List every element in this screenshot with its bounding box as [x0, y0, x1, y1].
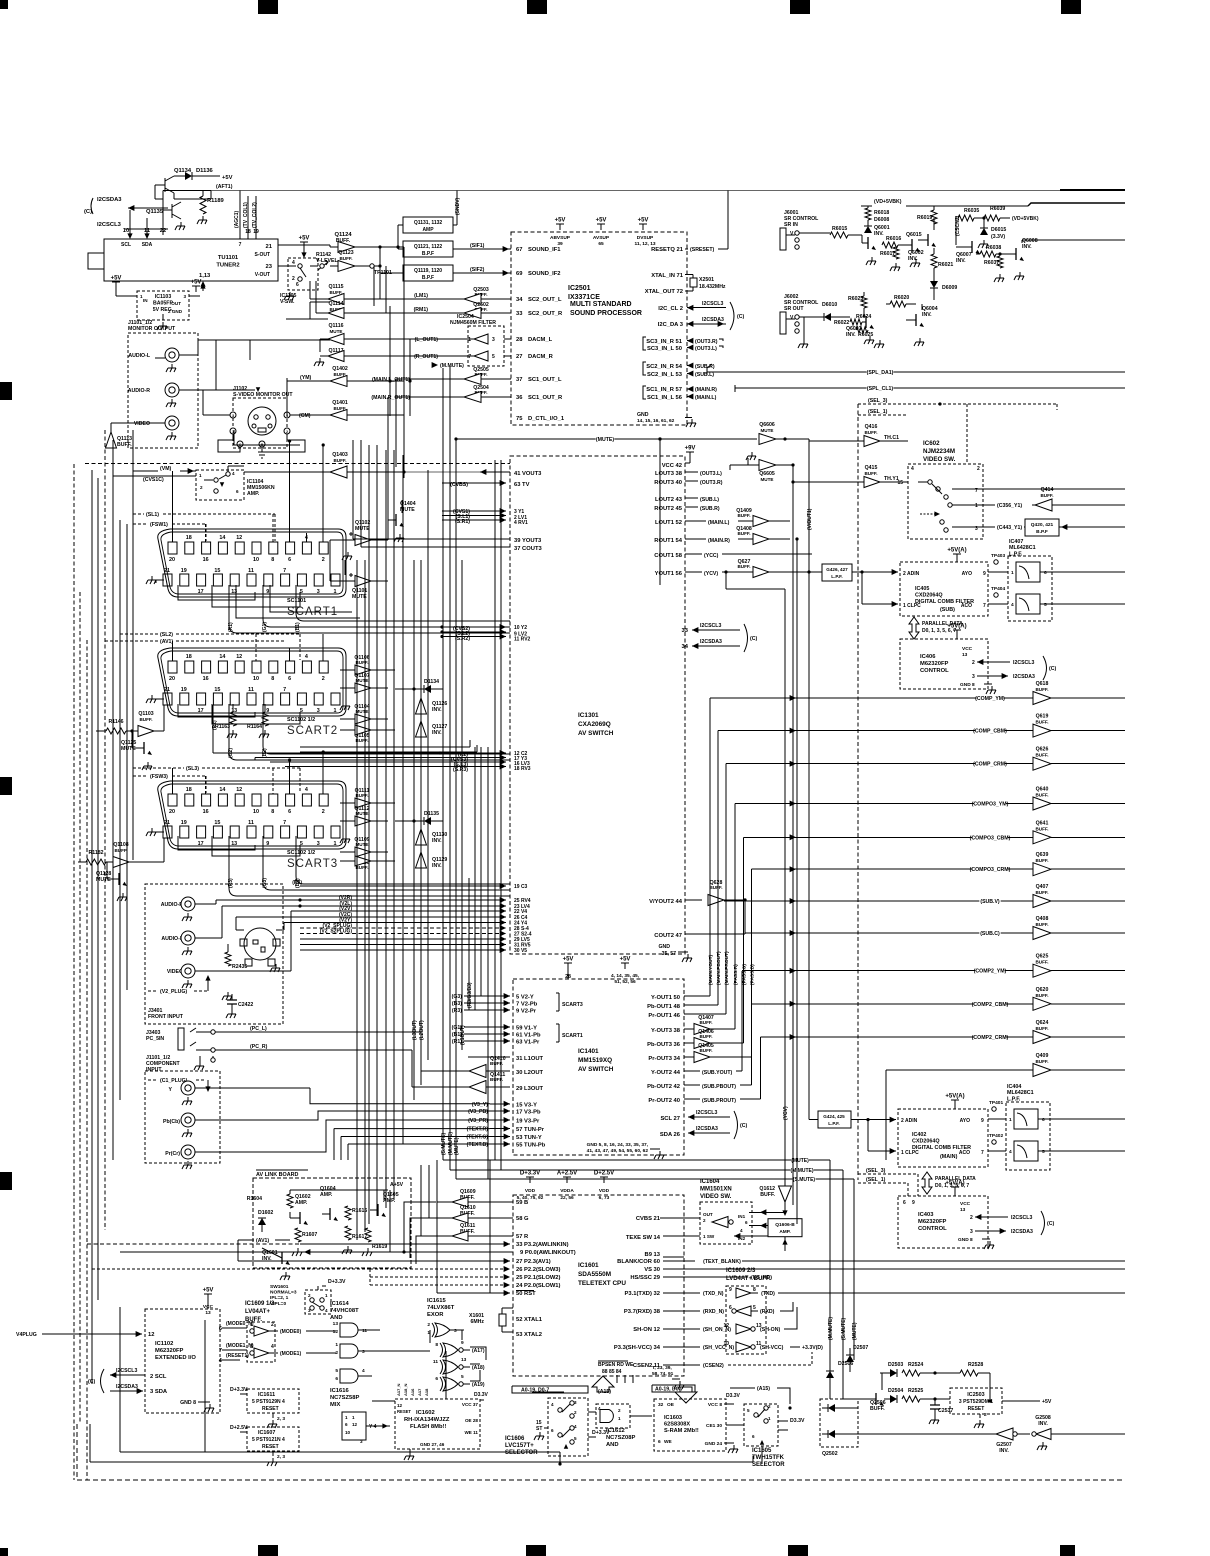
- svg-text:AV SWITCH: AV SWITCH: [578, 1066, 614, 1073]
- svg-text:2 GND: 2 GND: [168, 309, 183, 314]
- buffer Q1130 INV: [416, 829, 427, 845]
- svg-text:IC1616: IC1616: [330, 1388, 349, 1394]
- svg-text:6: 6: [658, 1439, 661, 1445]
- svg-text:DACM_R: DACM_R: [528, 354, 554, 360]
- svg-text:(YCV): (YCV): [704, 571, 718, 577]
- svg-text:SC1102 1/2: SC1102 1/2: [287, 717, 315, 723]
- svg-text:RESET: RESET: [397, 1409, 411, 1414]
- svg-text:(TEXT.G): (TEXT.G): [466, 1135, 488, 1141]
- svg-text:BUFF.: BUFF.: [114, 848, 127, 853]
- wire front audio l: [221, 906, 223, 938]
- svg-text:6: 6: [345, 1422, 348, 1427]
- svg-text:(RXD_N): (RXD_N): [703, 1309, 724, 1315]
- svg-text:(R3/G3/B3): (R3/G3/B3): [467, 982, 473, 1008]
- svg-text:SC2_IN_L 53: SC2_IN_L 53: [647, 372, 683, 378]
- svg-text:NJM4560M FILTER: NJM4560M FILTER: [450, 320, 496, 326]
- svg-text:ACO: ACO: [961, 603, 972, 609]
- svg-text:63 V1-Pr: 63 V1-Pr: [516, 1040, 540, 1046]
- svg-text:13: 13: [960, 1207, 966, 1213]
- svg-text:D+2.5V: D+2.5V: [230, 1425, 248, 1431]
- svg-text:5: 5: [1042, 1149, 1045, 1155]
- svg-text:CXA2069Q: CXA2069Q: [578, 721, 611, 728]
- svg-text:FLASH 8Mb!!: FLASH 8Mb!!: [410, 1424, 446, 1430]
- svg-text:(TEXT.R): (TEXT.R): [467, 1127, 489, 1133]
- svg-text:(SL2): (SL2): [160, 632, 173, 638]
- pin 27 P2.3: [504, 1258, 510, 1264]
- svg-text:D6015: D6015: [991, 227, 1006, 233]
- wire q1402 out down: [403, 381, 405, 467]
- svg-text:CONTROL: CONTROL: [918, 1226, 947, 1232]
- svg-text:13: 13: [962, 652, 968, 658]
- svg-text:(AV1): (AV1): [160, 639, 173, 645]
- svg-text:37 COUT3: 37 COUT3: [514, 546, 542, 552]
- svg-text:IC602: IC602: [923, 440, 940, 447]
- svg-text:21: 21: [164, 687, 170, 693]
- wire comp y: [299, 1087, 301, 1089]
- wire ycv vertical: [725, 572, 727, 589]
- svg-text:BLANK/COR 60: BLANK/COR 60: [617, 1259, 660, 1265]
- bracket SCART1 pins: [556, 1023, 559, 1025]
- svg-text:R2524: R2524: [908, 1362, 923, 1368]
- svg-text:(SUB): (SUB): [940, 607, 955, 613]
- svg-text:BUFF.: BUFF.: [864, 430, 877, 435]
- svg-text:13: 13: [461, 1357, 467, 1363]
- wire pc jacks: [215, 1031, 421, 1033]
- svg-text:TP402: TP402: [989, 1133, 1003, 1139]
- bus left dashed 2: [79, 592, 81, 1424]
- svg-text:11: 11: [362, 1328, 367, 1334]
- svg-text:6: 6: [288, 809, 291, 815]
- wire vbus19: [494, 460, 496, 903]
- svg-text:AUDIO-L: AUDIO-L: [161, 936, 183, 942]
- svg-text:(R3): (R3): [292, 880, 302, 886]
- filter tri1: [474, 334, 488, 344]
- svg-text:(R_OUT1): (R_OUT1): [414, 354, 438, 360]
- svg-text:+5V: +5V: [191, 280, 202, 286]
- svg-text:33 P3.2(AWLINKIN): 33 P3.2(AWLINKIN): [516, 1242, 569, 1248]
- svg-text:D1135: D1135: [424, 811, 439, 817]
- registration mark top 4: [1061, 0, 1081, 14]
- wire dacm outs: [410, 338, 440, 340]
- svg-text:GND 27, 46: GND 27, 46: [420, 1442, 445, 1447]
- wire tv in: [442, 482, 470, 484]
- wire vbundle2: [717, 731, 719, 1005]
- svg-text:IC1612: IC1612: [606, 1428, 625, 1434]
- svg-text:SCART2: SCART2: [287, 725, 338, 737]
- wire 1604 sw: [690, 1235, 700, 1237]
- svg-text:I2CSDA3: I2CSDA3: [97, 197, 122, 203]
- svg-text:(MUTE): (MUTE): [791, 1158, 809, 1164]
- svg-text:AMP.: AMP.: [779, 1229, 790, 1235]
- svg-text:(COMPO3_CBM): (COMPO3_CBM): [970, 835, 1011, 841]
- svg-text:IC1601: IC1601: [578, 1262, 599, 1269]
- svg-text:6: 6: [745, 1220, 748, 1225]
- svg-text:X2501: X2501: [699, 277, 714, 283]
- svg-text:NJM2234M: NJM2234M: [923, 448, 955, 455]
- svg-text:4: 4: [305, 654, 308, 660]
- wire vbundle6: [751, 869, 753, 1057]
- power D+2.5V 1601: [600, 1177, 608, 1183]
- svg-text:10: 10: [253, 809, 259, 815]
- svg-text:(RESET1): (RESET1): [226, 1353, 249, 1359]
- svg-text:D3.3V: D3.3V: [790, 1418, 805, 1424]
- wire sel1 dashed: [858, 414, 908, 416]
- svg-text:MM1519XQ: MM1519XQ: [578, 1057, 612, 1064]
- svg-text:IC2503: IC2503: [967, 1392, 984, 1398]
- svg-text:BUFF.: BUFF.: [1035, 753, 1048, 758]
- svg-text:Pr-OUT1 46: Pr-OUT1 46: [648, 1013, 680, 1019]
- svg-text:41, 43, 47, 49, 54, 55, 60, 62: 41, 43, 47, 49, 54, 55, 60, 62: [587, 1148, 649, 1154]
- svg-text:8: 8: [435, 1342, 438, 1348]
- svg-text:37: 37: [516, 377, 522, 383]
- svg-text:IN: IN: [143, 298, 148, 303]
- svg-text:I2CSDA3: I2CSDA3: [1013, 674, 1035, 680]
- svg-text:2: 2: [574, 1410, 577, 1415]
- diode D1136: [185, 172, 192, 180]
- svg-text:MULTI STANDARD: MULTI STANDARD: [570, 301, 632, 308]
- svg-text:59 B: 59 B: [516, 1200, 528, 1206]
- svg-text:+5V: +5V: [111, 276, 122, 282]
- parallel data arrow 405: [909, 617, 919, 639]
- svg-text:D_CTL_I/O_1: D_CTL_I/O_1: [528, 416, 565, 422]
- svg-text:(SL3): (SL3): [186, 766, 199, 772]
- connector J1101 box: [128, 333, 198, 448]
- wire vert q1403 bundle: [403, 247, 405, 472]
- svg-text:15: 15: [214, 687, 220, 693]
- wire scart2 pin20 up: [172, 641, 174, 661]
- svg-text:BUFF.: BUFF.: [699, 1048, 712, 1053]
- svg-text:14: 14: [219, 535, 225, 541]
- svg-text:51, 52, 56: 51, 52, 56: [614, 979, 636, 985]
- wire AGC drops: [239, 191, 241, 240]
- svg-text:2 ADIN: 2 ADIN: [903, 571, 920, 577]
- svg-text:(VD+5VBK): (VD+5VBK): [1012, 216, 1039, 222]
- svg-text:BUFF.: BUFF.: [1035, 1026, 1048, 1031]
- wire ic1605 down: [761, 1446, 763, 1464]
- wire spl_da1: [707, 364, 712, 375]
- svg-text:(OUT3.L): (OUT3.L): [695, 346, 717, 352]
- svg-text:(YM): (YM): [300, 375, 312, 381]
- svg-text:16: 16: [203, 676, 209, 682]
- wire misc vertical 797: [796, 539, 798, 1224]
- svg-text:RESET: RESET: [968, 1406, 985, 1412]
- svg-text:D+3.3V: D+3.3V: [328, 1279, 346, 1285]
- svg-text:P3.7(RXD) 38: P3.7(RXD) 38: [624, 1309, 661, 1315]
- wire scart vert r1: [329, 540, 331, 581]
- svg-text:INV.: INV.: [956, 258, 966, 264]
- wire s.mute row: [456, 1178, 854, 1180]
- svg-text:+5V: +5V: [620, 957, 631, 963]
- svg-text:WE 11: WE 11: [464, 1430, 478, 1435]
- lpf G424,425 box: [818, 1111, 851, 1128]
- svg-text:SELECTOR: SELECTOR: [752, 1462, 785, 1468]
- svg-text:INV.: INV.: [908, 256, 918, 262]
- border dashed left bottom: [76, 1424, 78, 1480]
- svg-text:SC2_OUT_R: SC2_OUT_R: [528, 311, 563, 317]
- svg-text:3: 3: [360, 1439, 363, 1444]
- svg-text:I2CSCL3: I2CSCL3: [97, 222, 122, 228]
- svg-text:9: 9: [729, 1287, 732, 1293]
- svg-text:18 RV3: 18 RV3: [514, 766, 531, 772]
- svg-text:A16: A16: [410, 1388, 415, 1396]
- svg-text:(SNDV): (SNDV): [455, 197, 461, 215]
- svg-text:(C443_Y1): (C443_Y1): [997, 525, 1022, 531]
- wire vm to q6606: [559, 438, 561, 440]
- svg-text:(COMP_CRM): (COMP_CRM): [973, 762, 1007, 768]
- svg-text:5 PST9121N 4: 5 PST9121N 4: [252, 1437, 285, 1443]
- svg-text:EXOR: EXOR: [427, 1312, 444, 1318]
- svg-text:SC2_IN_R 54: SC2_IN_R 54: [646, 364, 683, 370]
- svg-text:Pb-OUT1 48: Pb-OUT1 48: [647, 1004, 681, 1010]
- resistor R1189: [200, 196, 206, 214]
- svg-text:R1616: R1616: [352, 1208, 367, 1214]
- svg-text:34: 34: [682, 644, 689, 650]
- svg-text:RESET: RESET: [262, 1444, 279, 1450]
- ic IC1601 box: [513, 1195, 684, 1376]
- svg-text:AV LINK BOARD: AV LINK BOARD: [256, 1172, 299, 1178]
- svg-text:HS/SSC 29: HS/SSC 29: [630, 1275, 660, 1281]
- svg-text:17: 17: [198, 841, 204, 847]
- svg-text:1: 1: [1011, 570, 1014, 576]
- svg-text:4: 4: [271, 1344, 274, 1350]
- svg-text:1 CLPC: 1 CLPC: [903, 603, 921, 609]
- testpoint TP1101: [370, 264, 374, 268]
- svg-text:LOUT1 52: LOUT1 52: [655, 520, 682, 526]
- wire +5V reset: [1002, 1400, 1040, 1402]
- wire audio verticals: [197, 340, 199, 355]
- wire snd vertical: [456, 191, 458, 226]
- svg-text:25 P2.1(SLOW2): 25 P2.1(SLOW2): [516, 1275, 561, 1281]
- svg-text:21: 21: [164, 820, 170, 826]
- svg-text:M62320FP: M62320FP: [918, 1219, 946, 1225]
- svg-text:3: 3: [972, 674, 975, 680]
- svg-text:(AGC1): (AGC1): [234, 210, 240, 228]
- svg-text:39: 39: [557, 241, 563, 247]
- wire SDA drop: [146, 231, 148, 235]
- svg-text:13: 13: [333, 1321, 339, 1327]
- svg-text:(AV1): (AV1): [256, 1238, 269, 1244]
- svg-text:9: 9: [461, 1340, 464, 1346]
- svg-text:13: 13: [205, 1310, 211, 1316]
- svg-text:2, 3: 2, 3: [277, 1416, 285, 1422]
- connector SC1101 SCART1: [158, 529, 346, 597]
- wire scart2 pin2 up: [322, 634, 324, 661]
- svg-text:11: 11: [248, 687, 254, 693]
- svg-text:I2CSCL3: I2CSCL3: [1011, 1215, 1032, 1221]
- svg-text:14, 15, 16, 61, 62: 14, 15, 16, 61, 62: [637, 418, 675, 424]
- amp Q1131,1132 box: [403, 217, 453, 233]
- svg-text:(SUB.V): (SUB.V): [980, 899, 1000, 905]
- wire vbundle1: [709, 698, 711, 996]
- svg-text:LVC157T+: LVC157T+: [505, 1443, 534, 1449]
- buffer Q1129 INV: [416, 852, 427, 868]
- svg-text:D6009: D6009: [942, 285, 957, 291]
- ic403 i2c: [975, 1214, 981, 1220]
- svg-text:I2C_DA 3: I2C_DA 3: [658, 322, 684, 328]
- svg-text:MUTE: MUTE: [760, 428, 773, 433]
- svg-text:INPUT: INPUT: [146, 1067, 162, 1073]
- ic IC1604 box: [700, 1202, 752, 1244]
- wire vbus7: [402, 455, 404, 1144]
- box Q2502: [820, 1399, 858, 1447]
- registration mark top-left corner: [0, 0, 8, 9]
- selector IC1605 box: [744, 1404, 778, 1446]
- svg-text:Q1131, 1132: Q1131, 1132: [414, 220, 443, 226]
- svg-text:B.P.F: B.P.F: [422, 275, 434, 281]
- wire vbus1: [352, 440, 354, 539]
- wire j6002 gnd: [803, 317, 805, 340]
- svg-text:MUTE: MUTE: [121, 746, 136, 752]
- wire monitor bundle: [233, 430, 235, 445]
- svg-text:NC7SZ58P: NC7SZ58P: [330, 1395, 359, 1401]
- svg-text:7: 7: [981, 1150, 984, 1156]
- svg-text:13: 13: [231, 708, 237, 714]
- svg-text:(PC_L): (PC_L): [250, 1026, 267, 1032]
- svg-text:VCC 42: VCC 42: [662, 463, 682, 469]
- svg-text:6: 6: [1044, 570, 1047, 576]
- svg-text:CXD2064Q: CXD2064Q: [915, 592, 943, 598]
- power +5V(A) ic402: [951, 1100, 959, 1106]
- registration mark left 1: [0, 382, 12, 400]
- svg-text:50 RST: 50 RST: [516, 1291, 536, 1297]
- wire rgb g: [410, 1218, 436, 1258]
- brace (C) ic1401: [734, 1111, 738, 1139]
- wire vbus8: [413, 560, 415, 1100]
- svg-text:57 TUN-Pr: 57 TUN-Pr: [516, 1127, 545, 1133]
- svg-text:V4PLUG: V4PLUG: [16, 1332, 37, 1338]
- svg-text:3: 3: [317, 708, 320, 714]
- svg-text:Y-OUT2 44: Y-OUT2 44: [651, 1070, 681, 1076]
- svg-text:Pr-OUT3 34: Pr-OUT3 34: [648, 1056, 680, 1062]
- wire AFT1 long: [211, 190, 1060, 192]
- svg-text:26 P2.2(SLOW3): 26 P2.2(SLOW3): [516, 1267, 561, 1273]
- svg-text:BUFF.: BUFF.: [139, 717, 152, 722]
- svg-text:74LVX86T: 74LVX86T: [427, 1305, 455, 1311]
- svg-text:SOUND PROCESSOR: SOUND PROCESSOR: [570, 310, 642, 317]
- wire scart1 pin8 up: [272, 514, 274, 542]
- svg-text:A+5V: A+5V: [390, 1182, 404, 1188]
- svg-text:Pb-OUT3 36: Pb-OUT3 36: [647, 1042, 681, 1048]
- svg-text:(SUB.R): (SUB.R): [695, 364, 715, 370]
- connector J6002 jack: [780, 312, 786, 334]
- ic IC402 box: [898, 1109, 988, 1167]
- wire vbus4: [376, 445, 378, 1216]
- svg-text:4: 4: [911, 466, 914, 472]
- svg-text:(PASS.B): (PASS.B): [750, 964, 756, 985]
- bus left solid 1: [91, 470, 93, 1384]
- svg-text:30 L2OUT: 30 L2OUT: [516, 1070, 544, 1076]
- svg-text:INV.: INV.: [1022, 244, 1032, 250]
- svg-text:BUFF.: BUFF.: [1035, 687, 1048, 692]
- svg-text:R1607: R1607: [302, 1232, 317, 1238]
- svg-text:VCC 8: VCC 8: [708, 1402, 722, 1408]
- wire scart1 pin2 up: [322, 445, 324, 542]
- ic IC602 box: [908, 464, 983, 539]
- svg-text:OUT: OUT: [171, 301, 181, 306]
- svg-text:(SEL_3): (SEL_3): [866, 1168, 886, 1174]
- svg-text:(C): (C): [737, 314, 744, 320]
- transistor Q6004: [915, 314, 917, 326]
- svg-text:SC3_IN_R 51: SC3_IN_R 51: [646, 339, 683, 345]
- bus arrow A0-19 left: [592, 1376, 614, 1392]
- svg-text:SR IN: SR IN: [784, 222, 798, 228]
- svg-text:INV.: INV.: [874, 231, 884, 237]
- svg-text:9 V2-Pr: 9 V2-Pr: [516, 1009, 537, 1015]
- svg-text:(M.MUTE): (M.MUTE): [440, 363, 464, 369]
- svg-text:3 SDA: 3 SDA: [150, 1389, 168, 1395]
- svg-text:18: 18: [186, 535, 192, 541]
- svg-text:(LM1): (LM1): [414, 293, 428, 299]
- svg-text:MM1501XN: MM1501XN: [700, 1187, 732, 1193]
- svg-text:2: 2: [200, 485, 203, 490]
- svg-text:2 ADIN: 2 ADIN: [901, 1118, 918, 1124]
- wire sel3 dashed: [858, 403, 1057, 405]
- svg-text:+5V: +5V: [563, 957, 574, 963]
- svg-text:S-VIDEO MONITOR OUT: S-VIDEO MONITOR OUT: [233, 392, 293, 398]
- svg-text:30 V5: 30 V5: [514, 948, 527, 954]
- svg-text:SC1_OUT_L: SC1_OUT_L: [528, 377, 562, 383]
- svg-text:Y: Y: [169, 1087, 173, 1093]
- svg-text:(MAIN.R): (MAIN.R): [695, 387, 717, 393]
- svg-text:(CVS1C): (CVS1C): [143, 477, 164, 483]
- svg-text:TH.C1: TH.C1: [884, 435, 899, 441]
- svg-text:4, 14, 35, 45,: 4, 14, 35, 45,: [611, 973, 640, 979]
- wire awlink in: [87, 1243, 300, 1245]
- svg-text:INV.: INV.: [999, 1448, 1009, 1454]
- svg-text:INV.: INV.: [432, 863, 442, 869]
- svg-text:A18_N: A18_N: [403, 1383, 408, 1396]
- svg-text:B9 13: B9 13: [645, 1252, 661, 1258]
- svg-text:BUFF.: BUFF.: [1035, 993, 1048, 998]
- svg-text:(COMP2_YM): (COMP2_YM): [974, 969, 1007, 975]
- svg-text:16: 16: [203, 557, 209, 563]
- svg-text:ABVSUP: ABVSUP: [550, 235, 571, 241]
- svg-text:R6018: R6018: [874, 210, 889, 216]
- svg-text:10: 10: [253, 676, 259, 682]
- svg-text:4: 4: [325, 1308, 328, 1313]
- svg-text:(MAIN.PROUT): (MAIN.PROUT): [724, 951, 730, 985]
- svg-text:3: 3: [250, 1344, 253, 1350]
- svg-text:5 V2-Y: 5 V2-Y: [516, 995, 534, 1001]
- wire rgb b: [404, 1202, 436, 1252]
- svg-text:+5V: +5V: [222, 175, 233, 181]
- wire vbus3: [368, 445, 370, 1224]
- svg-text:IC406: IC406: [920, 654, 936, 660]
- svg-text:(FSW3): (FSW3): [150, 774, 168, 780]
- wire av1 line: [237, 1240, 239, 1261]
- ic IC405 box: [900, 562, 988, 616]
- gate IC1612 and: [596, 1404, 630, 1428]
- svg-text:10: 10: [123, 228, 129, 234]
- connector SC1102 SCART2: [158, 648, 346, 716]
- svg-text:1: 1: [1009, 1117, 1012, 1123]
- svg-text:TU1101: TU1101: [218, 255, 239, 261]
- svg-text:3: 3: [362, 1349, 365, 1355]
- svg-text:R2525: R2525: [908, 1388, 923, 1394]
- buffer box 1609c: [247, 1322, 275, 1362]
- wire scart3 pin2 up: [322, 752, 324, 794]
- svg-text:1: 1: [352, 1415, 355, 1420]
- buffer Q1127 INV: [416, 721, 427, 737]
- svg-text:G426, 427: G426, 427: [826, 567, 848, 572]
- svg-text:7: 7: [283, 687, 286, 693]
- svg-text:7: 7: [239, 242, 242, 248]
- tuner TU1101 box: [104, 239, 278, 281]
- svg-text:6: 6: [335, 1376, 338, 1382]
- lpf sym 1: [1016, 562, 1040, 582]
- svg-text:20: 20: [169, 676, 175, 682]
- svg-text:(V2_PLUG): (V2_PLUG): [160, 989, 187, 995]
